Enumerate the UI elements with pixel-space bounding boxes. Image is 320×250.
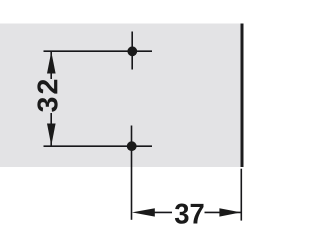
extension line bottom (through drill point B) (44, 145, 153, 147)
drill point B dot (127, 141, 137, 151)
arrow up (32 dim) (47, 52, 56, 74)
dimension line 37 left segment with left arrow (153, 211, 173, 213)
arrow left (37 dim) (132, 208, 155, 216)
panel front edge (thick line) (241, 24, 244, 168)
drill point A dot (127, 46, 137, 56)
dimension line 32 lower segment (50, 113, 52, 146)
panel (board cross-section) (0, 24, 241, 168)
extension line top (through drill point A) (44, 50, 153, 52)
arrow down (32 dim) (47, 124, 56, 146)
label 32 (rotated) digit 3 (37, 98, 57, 112)
arrow right (37 dim) (219, 208, 241, 216)
dimension line 32 upper segment (50, 52, 52, 79)
right extension line (panel edge reference for 37 dim) (240, 169, 242, 221)
label 37 digit 7 (191, 204, 204, 224)
drill point B vertical centerline / left extension of 37 dim (131, 126, 133, 220)
dimension line 37 right segment with right arrow (205, 211, 241, 213)
label 37 digit 3 (175, 204, 189, 224)
drill point A vertical centerline (131, 32, 133, 70)
label 32 (rotated) digit 2 (37, 80, 57, 94)
